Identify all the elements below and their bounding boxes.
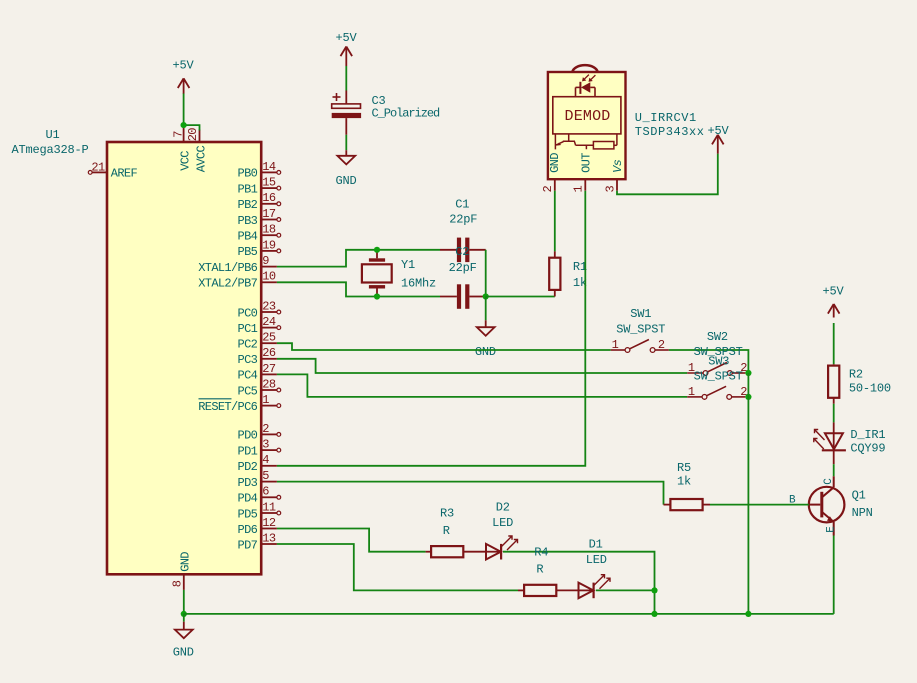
wire PC2 to SW1 [277,343,611,350]
svg-text:PD0: PD0 [238,429,258,443]
pin 18 PB4 [261,234,277,236]
wire R5 to Q1 base [710,504,809,506]
wire D1 to junction [596,589,655,591]
wire switch bus down to ground rail [747,373,749,614]
svg-text:Y1: Y1 [401,258,415,272]
power +5V at Vs [712,135,718,145]
pin 10 XTAL2/PB7 [261,281,277,283]
svg-text:GND: GND [548,153,562,173]
power +5V at R2 [828,304,834,314]
svg-text:2: 2 [262,422,269,436]
pin 17 PB3 [261,219,277,221]
junction crystal bottom [374,293,380,299]
wire PD7 to R4 [277,544,518,590]
svg-text:GND: GND [475,345,496,359]
svg-text:R2: R2 [849,367,863,381]
svg-text:PD5: PD5 [238,507,258,521]
svg-text:3: 3 [603,185,617,192]
resistor R4 R [518,589,524,591]
ground below C2 [485,320,487,327]
junction ground rail left [181,611,187,617]
svg-text:2: 2 [541,185,555,192]
svg-text:PD3: PD3 [238,476,258,490]
svg-text:C_Polarized: C_Polarized [372,107,441,121]
junction D1 D2 node [651,587,657,593]
junction C2 node [483,293,489,299]
svg-text:PB4: PB4 [238,230,258,244]
svg-text:R: R [536,563,543,577]
junction SW2 output [745,370,751,376]
svg-text:C: C [823,478,835,485]
svg-text:LED: LED [492,516,513,530]
pin 4 PD2 [261,465,277,467]
ir receiver output stage [555,134,593,149]
pin 20 AVCC [199,130,201,143]
svg-text:22pF: 22pF [449,213,477,227]
pin 7 VCC [183,128,185,143]
svg-text:15: 15 [262,176,276,190]
svg-text:+5V: +5V [173,59,195,73]
svg-text:GND: GND [336,174,357,188]
wire U1 GND pin down [183,590,185,614]
svg-text:XTAL1/PB6: XTAL1/PB6 [198,261,257,275]
pin 2 PD0 [261,433,277,435]
pin 2 GND stub [554,179,556,191]
resistor R5 1k [664,504,671,506]
pin 27 PC4 [261,373,277,375]
svg-text:13: 13 [262,531,276,545]
svg-text:27: 27 [262,362,276,376]
svg-text:1: 1 [688,385,695,399]
wire PD6 to R3 [277,529,426,552]
pin 23 PC0 [261,311,277,313]
wire PC4 to SW3 [277,374,687,397]
wire C2 node to ground [485,297,487,321]
wire D_IR1 to Q1 collector [833,450,835,464]
svg-text:17: 17 [262,207,276,221]
svg-text:OUT: OUT [580,153,594,173]
svg-text:16: 16 [262,191,276,205]
svg-text:2: 2 [658,338,665,352]
pin 16 PB2 [261,203,277,205]
svg-text:D_IR1: D_IR1 [850,428,885,442]
svg-text:11: 11 [262,500,276,514]
wire Q1 emitter to ground rail [833,536,835,614]
resistor R2 50-100 [833,364,835,366]
switch SW2 SW_SPST [687,372,703,374]
svg-text:28: 28 [262,377,276,391]
svg-text:Vs: Vs [611,159,625,173]
wire +5V to VCC [183,94,185,126]
svg-text:SW_SPST: SW_SPST [694,370,743,384]
junction crystal top [374,247,380,253]
svg-text:PD6: PD6 [238,523,258,537]
pin 12 PD6 [261,528,277,530]
svg-text:PC1: PC1 [238,322,258,336]
svg-text:CQY99: CQY99 [850,442,885,456]
switch SW3 SW_SPST [687,396,702,398]
pin 13 PD7 [261,543,277,545]
svg-text:GND: GND [173,646,194,660]
svg-text:16Mhz: 16Mhz [401,277,436,291]
svg-text:24: 24 [262,315,276,329]
svg-text:4: 4 [262,453,269,467]
svg-text:ATmega328-P: ATmega328-P [12,143,89,157]
switch SW1 SW_SPST [611,349,625,351]
ir receiver demod block [553,97,621,134]
pin 5 PD3 [261,481,277,483]
led D1 [579,583,594,599]
svg-text:TSDP343xx: TSDP343xx [635,125,705,139]
pin 21 AREF [92,171,107,173]
wire C1 to C2 node [485,250,487,297]
ic U1 ATmega328-P body [107,142,261,574]
junction VCC node [181,122,187,128]
svg-text:D1: D1 [589,537,603,551]
wire ground rail [184,613,834,615]
svg-text:R4: R4 [534,545,548,559]
pin 19 PB5 [261,250,277,252]
svg-text:PB2: PB2 [238,198,258,212]
svg-text:SW1: SW1 [630,307,651,321]
pin 15 PB1 [261,187,277,189]
svg-text:XTAL2/PB7: XTAL2/PB7 [198,277,257,291]
wire +5V to R2 [833,323,835,364]
led D2 [486,544,501,560]
ir receiver dome [572,65,597,72]
ir receiver U_IRRCV1 body [548,72,626,179]
capacitor C1 22pF [440,249,457,251]
ground below C3 [345,150,347,156]
wire D2 to ground rail [503,552,655,614]
svg-text:PD7: PD7 [238,538,258,552]
pin 26 PC3 [261,358,277,360]
power +5V at C3 [341,47,347,57]
wire R2 to D_IR1 [833,404,835,423]
pin 9 XTAL1/PB6 [261,266,277,268]
svg-text:C2: C2 [455,245,469,259]
svg-text:PC0: PC0 [238,306,258,320]
svg-text:14: 14 [262,160,276,174]
svg-text:25: 25 [262,331,276,345]
svg-text:8: 8 [171,580,185,587]
svg-text:1k: 1k [677,475,691,489]
wire C3 to GND [345,118,347,135]
wire OUT pin to PD2 [277,191,585,466]
capacitor C2 22pF [440,296,457,298]
svg-text:22pF: 22pF [449,261,477,275]
svg-text:PB3: PB3 [238,214,258,228]
svg-text:23: 23 [262,299,276,313]
svg-text:D2: D2 [496,500,510,514]
svg-text:PC5: PC5 [238,384,258,398]
wire PC3 to SW2 [277,359,687,373]
junction ground rail at LEDs [651,611,657,617]
wire XTAL2 to crystal bottom [277,282,440,296]
pin 1 OUT stub [584,179,586,191]
svg-text:Q1: Q1 [852,489,866,503]
power +5V at U1 VCC [178,78,184,88]
svg-text:R: R [443,524,450,538]
svg-text:21: 21 [91,161,105,175]
svg-text:19: 19 [262,238,276,252]
wire +5V to C3 [345,66,347,91]
svg-text:E: E [825,526,837,533]
svg-text:7: 7 [171,131,185,138]
ground below U1 [183,614,185,622]
pin 6 PD4 [261,496,277,498]
pin 3 PD1 [261,449,277,451]
svg-text:9: 9 [262,254,269,268]
wire XTAL1 to crystal top [277,250,440,267]
pin 11 PD5 [261,512,277,514]
svg-text:PB1: PB1 [238,182,258,196]
svg-text:+5V: +5V [823,285,845,299]
transistor Q1 NPN [809,487,845,523]
wire C2 node to R1 bottom [486,296,555,298]
svg-text:3: 3 [262,438,269,452]
pin 8 GND [183,574,185,590]
svg-text:AVCC: AVCC [194,146,208,173]
junction SW3 output [745,394,751,400]
svg-text:DEMOD: DEMOD [565,108,611,125]
pin 14 PB0 [261,171,277,173]
resistor R3 R [426,551,432,553]
svg-text:C1: C1 [455,198,469,212]
ir receiver photodiode [581,82,590,93]
resistor R1 1k [554,251,556,257]
ir receiver light arrows [584,75,589,80]
svg-text:PC2: PC2 [238,338,258,352]
wire Vs to +5V [617,154,718,195]
svg-text:SW2: SW2 [707,330,728,344]
svg-text:RESET/PC6: RESET/PC6 [198,400,257,414]
svg-text:U_IRRCV1: U_IRRCV1 [635,111,697,125]
svg-text:10: 10 [262,270,276,284]
svg-text:PD2: PD2 [238,460,258,474]
junction ground rail at switch bus [745,611,751,617]
wire jog to AVCC pin 20 [184,125,200,130]
pin 28 PC5 [261,389,277,391]
svg-text:50-100: 50-100 [849,382,891,396]
svg-text:SW_SPST: SW_SPST [616,322,665,336]
svg-text:18: 18 [262,223,276,237]
svg-text:PB0: PB0 [238,167,258,181]
svg-text:6: 6 [262,485,269,499]
svg-text:1: 1 [612,338,619,352]
wire SW1 to switch bus [669,350,749,373]
wire PD3 to R5 [277,482,664,505]
svg-text:U1: U1 [46,128,60,142]
capacitor C3 [345,91,347,104]
svg-text:R5: R5 [677,461,691,475]
svg-text:NPN: NPN [852,506,873,520]
svg-text:PD1: PD1 [238,444,258,458]
svg-text:1: 1 [262,393,269,407]
wire GND pin to R1 [554,191,556,252]
pin 24 PC1 [261,327,277,329]
svg-text:LED: LED [586,553,607,567]
svg-text:VCC: VCC [178,151,192,171]
crystal Y1 [376,250,378,258]
svg-text:PB5: PB5 [238,245,258,259]
svg-text:1: 1 [572,185,586,192]
pin 25 PC2 [261,342,277,344]
svg-text:PD4: PD4 [238,492,258,506]
svg-text:20: 20 [186,128,200,142]
svg-text:PC4: PC4 [238,369,258,383]
svg-text:26: 26 [262,346,276,360]
svg-text:+5V: +5V [708,124,730,138]
led D_IR1 CQY99 [833,422,835,433]
svg-text:PC3: PC3 [238,353,258,367]
svg-text:GND: GND [178,552,192,572]
svg-text:12: 12 [262,516,276,530]
pin 1 RESET/PC6 [261,405,277,407]
svg-text:SW3: SW3 [708,354,729,368]
pin 3 Vs stub [616,179,618,191]
svg-text:R3: R3 [440,506,454,520]
svg-text:AREF: AREF [111,167,138,181]
svg-text:5: 5 [262,469,269,483]
svg-text:+5V: +5V [336,31,358,45]
